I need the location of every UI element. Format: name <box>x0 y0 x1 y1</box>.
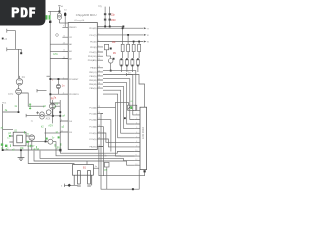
svg-text:6: 6 <box>61 119 62 121</box>
svg-text:PB1(O): PB1(O) <box>89 72 97 74</box>
svg-text:23: 23 <box>63 43 65 45</box>
wire drop PC2 <box>103 120 111 152</box>
wire Q4 collector right <box>44 106 60 116</box>
right pin stubs cluster B <box>97 68 103 88</box>
wire Q4 down <box>51 109 53 124</box>
svg-text:PD2(I): PD2(I) <box>90 41 97 43</box>
capacitor C5 <box>104 162 109 167</box>
svg-text:5: 5 <box>98 45 99 47</box>
wire pot feed <box>116 102 129 107</box>
node <box>59 11 61 13</box>
node <box>45 141 47 143</box>
wire PB1 <box>103 75 135 115</box>
svg-text:PC2(A): PC2(A) <box>89 119 96 122</box>
power flag + <box>36 111 39 114</box>
button S3 <box>125 58 128 66</box>
svg-text:16: 16 <box>98 74 100 76</box>
svg-text:PC1(A): PC1(A) <box>89 113 96 116</box>
svg-text:ADY: ADY <box>48 124 53 127</box>
svg-text:ATmega8A: ATmega8A <box>74 19 85 22</box>
svg-text:PD5(O0): PD5(O0) <box>88 56 97 58</box>
svg-text:4n 4h: 4n 4h <box>33 149 39 151</box>
wire <box>15 31 17 50</box>
svg-text:PB4(M): PB4(M) <box>89 84 97 86</box>
wire PB3 <box>103 83 135 124</box>
wire busL2 <box>56 148 135 156</box>
wire busL3 <box>40 151 135 161</box>
node <box>110 48 112 50</box>
svg-text:LCD 16X2: LCD 16X2 <box>141 126 145 139</box>
wire bus3 <box>103 41 143 43</box>
transistor Q3 <box>29 135 35 141</box>
node <box>110 70 112 72</box>
wire <box>17 49 19 78</box>
wire PB2 <box>103 79 135 120</box>
svg-text:RX: RX <box>147 35 149 37</box>
LED D3 <box>40 112 44 119</box>
svg-text:PC6/RST: PC6/RST <box>69 79 79 81</box>
wire busL4 <box>34 151 135 166</box>
node <box>132 188 134 190</box>
extra green net labels <box>8 103 59 136</box>
wire module right <box>93 167 99 169</box>
node INT arrow <box>144 41 147 43</box>
wire drop PC0 to pot <box>103 108 135 157</box>
buzzer LS1 <box>57 6 61 23</box>
svg-text:PC5(S): PC5(S) <box>89 139 96 141</box>
svg-text:4: 4 <box>63 93 64 95</box>
node <box>113 58 115 60</box>
node <box>49 93 51 95</box>
IC U2 <box>9 132 29 146</box>
button S4 <box>131 58 134 66</box>
wire Q2 emitter down <box>3 95 19 151</box>
node <box>52 115 54 117</box>
wire PB5 <box>103 90 135 133</box>
wire col1 <box>121 28 122 72</box>
op-amp U1 body <box>68 23 97 150</box>
wire <box>47 75 51 77</box>
node <box>59 111 61 113</box>
connector J2 LCD <box>140 107 147 169</box>
button S5 <box>136 58 139 66</box>
wire bus2 <box>103 34 143 36</box>
svg-text:ChipgAVR MCU: ChipgAVR MCU <box>76 13 97 17</box>
svg-text:PB0(I): PB0(I) <box>90 68 96 70</box>
node <box>49 21 51 23</box>
svg-text:24: 24 <box>63 50 65 52</box>
svg-text:KYC: KYC <box>8 93 13 96</box>
node stair junction <box>124 117 126 119</box>
wire to IC corner <box>59 22 68 24</box>
node + power flag <box>2 38 22 55</box>
svg-text:6: 6 <box>98 50 99 52</box>
node <box>109 26 111 28</box>
wire mid horizontal <box>45 132 61 134</box>
node col junctions <box>122 27 140 42</box>
wire rail C <box>52 103 54 116</box>
node <box>59 149 61 152</box>
ground <box>18 150 25 160</box>
wire <box>28 140 48 142</box>
crystal X1 <box>104 7 111 27</box>
node <box>144 170 146 172</box>
svg-text:PB6/X1: PB6/X1 <box>69 27 77 29</box>
node <box>20 149 22 151</box>
wire from Q2 to middle <box>22 93 45 106</box>
svg-text:3: 3 <box>98 33 99 35</box>
resistor RA2 <box>127 44 130 51</box>
svg-text:25: 25 <box>63 57 65 59</box>
LED D2 <box>48 139 56 148</box>
LED indicator green <box>29 103 31 109</box>
resistor RA4 <box>138 44 141 51</box>
wire to IC pin <box>50 58 68 60</box>
wire lower run <box>107 167 139 189</box>
right pin stubs cluster A <box>97 28 103 60</box>
left pin stubs <box>60 27 68 132</box>
svg-text:17: 17 <box>98 78 100 80</box>
svg-text:PD0(R): PD0(R) <box>89 28 97 30</box>
connector pin numbers <box>135 109 137 166</box>
polarized capacitor C1 <box>64 10 67 28</box>
wire drop <box>45 128 47 141</box>
button S2 <box>120 58 123 66</box>
svg-text:PC3(A): PC3(A) <box>89 126 96 129</box>
svg-text:PB2(S): PB2(S) <box>89 76 96 78</box>
pin J1-1 <box>7 29 16 33</box>
right pin names cluster B <box>89 68 97 90</box>
wire <box>37 89 47 92</box>
wire drop from IC PC4 <box>103 133 135 142</box>
svg-text:TX: TX <box>147 28 149 30</box>
node <box>18 111 20 113</box>
wire PB0 <box>103 71 136 111</box>
wire bottom rail <box>3 141 61 150</box>
right pin numbers cluster B/C <box>98 66 100 147</box>
pin J1-2 <box>7 48 19 52</box>
node RX arrow <box>144 34 147 36</box>
right pin names cluster A <box>88 28 97 62</box>
svg-text:PD4(X): PD4(X) <box>89 52 96 54</box>
wire top feed <box>48 10 59 12</box>
wire drop from IC pin bottom <box>99 147 145 176</box>
wire col4 <box>138 42 139 73</box>
svg-text:PD1(T): PD1(T) <box>89 35 96 37</box>
capacitor C2 <box>56 79 60 94</box>
resistor RA3 <box>132 44 135 51</box>
svg-text:PB3(M): PB3(M) <box>89 80 97 82</box>
node <box>49 78 51 80</box>
wire stub to junction <box>18 49 21 52</box>
wire PB4 <box>103 87 135 129</box>
pin tick <box>25 114 27 117</box>
svg-text:PD3(I): PD3(I) <box>90 47 97 49</box>
svg-text:PC4(S): PC4(S) <box>89 133 96 135</box>
svg-text:9: 9 <box>63 26 64 28</box>
transistor Q5 <box>46 110 51 115</box>
PDF badge <box>0 0 46 26</box>
resistor RA1 <box>121 44 124 51</box>
svg-text:PD6(AN): PD6(AN) <box>88 59 97 62</box>
svg-text:19: 19 <box>98 87 100 89</box>
wire drop PC1 <box>101 114 107 190</box>
resistor R1 <box>104 44 108 49</box>
wire col3 <box>132 42 133 73</box>
wire <box>3 129 13 131</box>
svg-text:GTA: GTA <box>53 53 58 56</box>
svg-text:4: 4 <box>98 40 99 42</box>
wire to RST pin <box>50 79 68 94</box>
wire col2 <box>127 35 128 72</box>
svg-text:15: 15 <box>98 70 100 72</box>
svg-text:1: 1 <box>63 77 64 79</box>
wire rail B <box>59 100 61 150</box>
wire drop from IC PC5 <box>103 139 135 147</box>
extra green pin ticks <box>11 131 61 149</box>
wire rail A <box>50 11 60 103</box>
node <box>60 149 62 151</box>
left pin names <box>69 27 79 134</box>
wire drop second <box>102 127 104 176</box>
svg-text:2: 2 <box>98 27 99 29</box>
potentiometer RV1 <box>128 105 137 111</box>
wire module left with pin <box>64 184 77 187</box>
green body marks <box>1 135 60 147</box>
wire top <box>97 25 123 27</box>
transistor Q1 <box>16 76 23 85</box>
svg-text:11: 11 <box>98 55 100 57</box>
node <box>122 26 124 28</box>
node <box>58 78 60 80</box>
wire busL5 <box>28 150 74 165</box>
right pin names cluster C <box>89 107 96 149</box>
wire bus1 <box>103 27 143 29</box>
svg-text:PC0(A): PC0(A) <box>89 107 96 110</box>
svg-text:11: 11 <box>61 130 63 132</box>
wire <box>26 115 40 117</box>
wire left IC pins <box>59 121 61 133</box>
svg-text:16M: 16M <box>111 20 116 22</box>
wire to IC pin PB6 <box>50 43 68 45</box>
module B1 <box>73 165 94 187</box>
wire Q3 emitter <box>31 140 33 150</box>
node <box>68 184 72 187</box>
wire busL1 <box>60 150 134 153</box>
push button S1 <box>107 50 113 71</box>
svg-text:IN: IN <box>147 42 149 44</box>
pin flag In <box>127 73 145 107</box>
svg-text:PD2/INT0: PD2/INT0 <box>69 94 79 96</box>
right pin numbers cluster A <box>98 27 100 61</box>
svg-text:14: 14 <box>98 66 100 68</box>
connector pin stubs <box>135 110 140 165</box>
wire PC0 <box>103 94 135 138</box>
svg-text:18: 18 <box>98 83 100 85</box>
svg-text:ACK: ACK <box>46 118 51 121</box>
right pin stubs cluster C <box>97 108 103 147</box>
wire to IC pin PB7 <box>50 50 68 52</box>
node TX arrow <box>144 27 147 29</box>
svg-text:12: 12 <box>98 59 100 61</box>
transistor Q2 <box>16 85 22 94</box>
transistor Q4 <box>50 100 56 109</box>
svg-text:PB5(S): PB5(S) <box>89 88 96 90</box>
svg-text:10: 10 <box>63 36 65 38</box>
left pin numbers <box>61 26 65 133</box>
node <box>104 26 106 28</box>
svg-text:PB2(S): PB2(S) <box>89 146 96 148</box>
